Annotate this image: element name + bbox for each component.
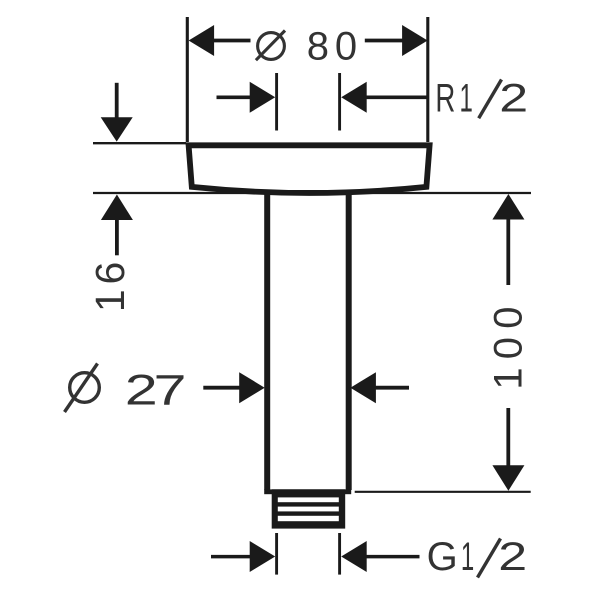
- svg-text:16: 16: [87, 257, 133, 312]
- svg-text:1: 1: [461, 534, 474, 579]
- svg-text:80: 80: [307, 25, 363, 69]
- svg-text:100: 100: [487, 298, 531, 389]
- svg-text:2: 2: [499, 75, 528, 120]
- svg-text:2: 2: [498, 534, 527, 579]
- svg-text:R: R: [435, 77, 455, 121]
- svg-text:27: 27: [125, 365, 185, 413]
- svg-text:G: G: [427, 535, 458, 579]
- svg-text:1: 1: [460, 75, 473, 120]
